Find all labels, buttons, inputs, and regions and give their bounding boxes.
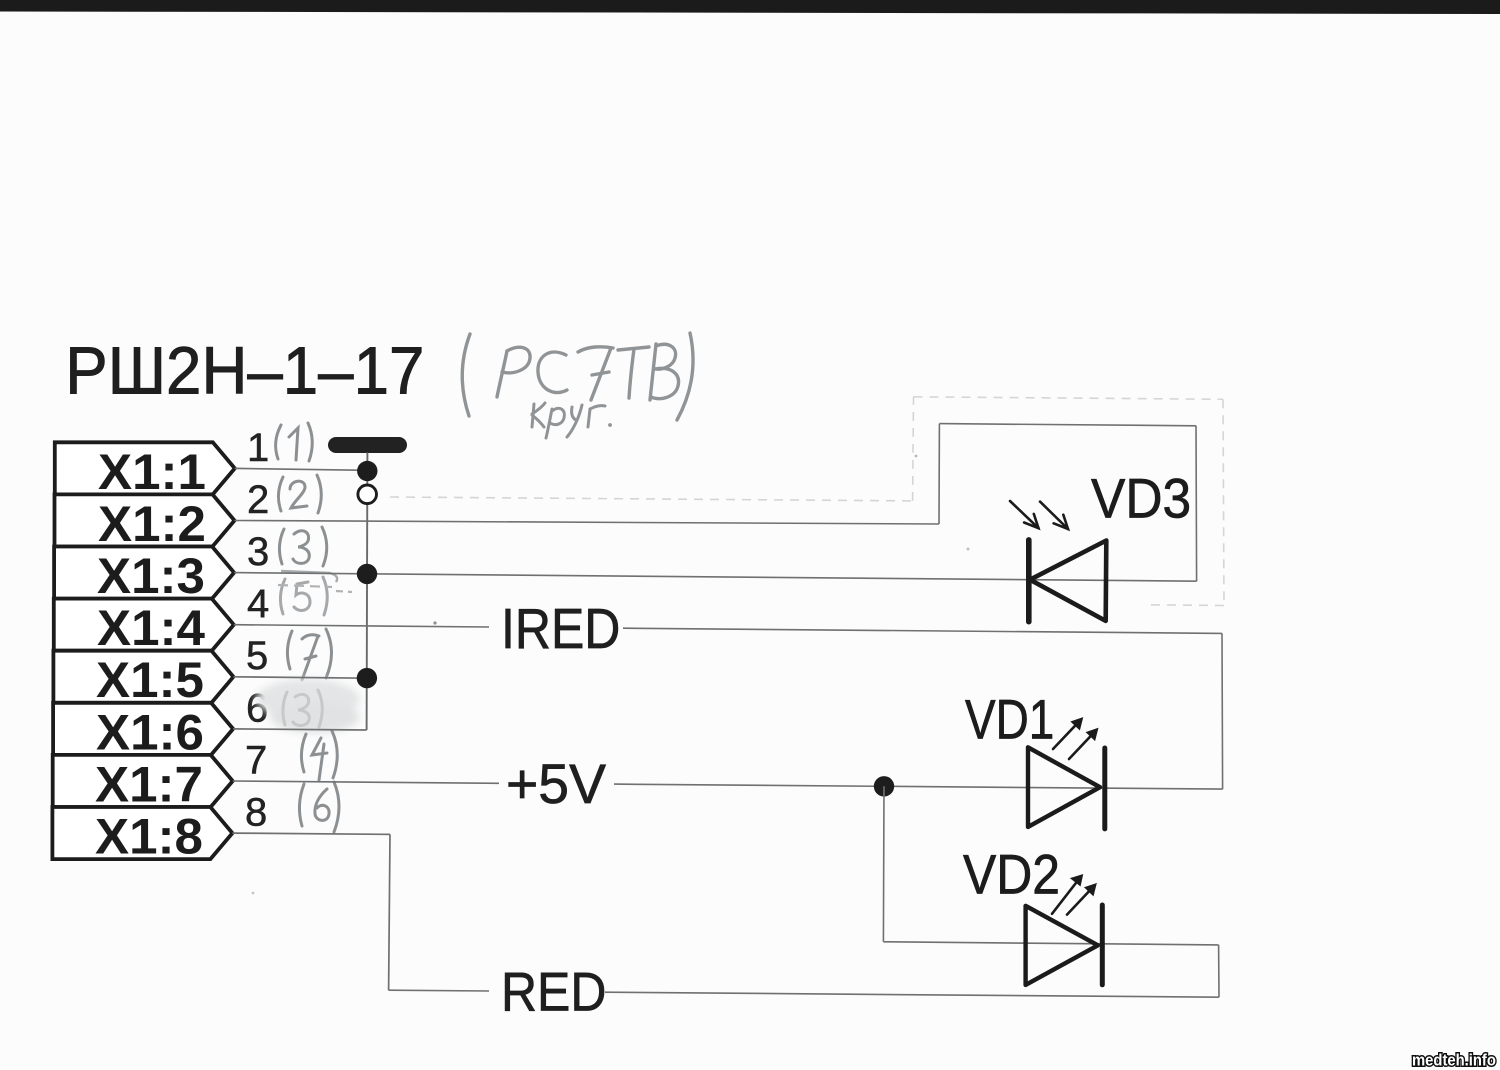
scan speck 3 <box>967 548 970 551</box>
erased dashed wire <box>390 397 1224 606</box>
svg-text:1: 1 <box>247 426 269 470</box>
svg-text:3: 3 <box>247 530 269 574</box>
svg-text:X1:1: X1:1 <box>98 444 206 500</box>
wire pin8 <box>232 833 390 834</box>
scan speck 1 <box>433 621 436 624</box>
svg-text:РШ2Н–1–17: РШ2Н–1–17 <box>65 333 424 408</box>
wire pin6 to bus <box>233 729 367 730</box>
svg-text:VD2: VD2 <box>963 844 1060 906</box>
handwritten dashes near (3) <box>281 571 337 582</box>
handwritten (3) <box>279 527 326 566</box>
handwritten круг. <box>532 403 612 438</box>
shield bar <box>328 437 407 453</box>
photodiode VD3 <box>1010 501 1106 622</box>
junction dot pin5 <box>357 668 377 688</box>
open circle shield <box>358 485 377 504</box>
connector flag X1:1 <box>55 442 235 500</box>
connector flag X1:4 <box>54 599 234 657</box>
svg-text:X1:5: X1:5 <box>96 652 204 708</box>
svg-text:X1:4: X1:4 <box>97 600 205 656</box>
scan speck 2 <box>915 455 918 458</box>
wire +5V left <box>233 781 499 783</box>
wire IRED right <box>623 628 1222 633</box>
wire pin2 <box>235 521 940 525</box>
handwritten dashes near (5) <box>278 585 352 592</box>
scanner top bar <box>0 0 1500 14</box>
junction dot pin3 <box>357 564 377 584</box>
scan speck 4 <box>252 892 255 895</box>
wire pin8 drop <box>389 834 390 990</box>
svg-text:8: 8 <box>245 791 267 835</box>
handwritten (4) <box>301 731 337 780</box>
svg-text:7: 7 <box>245 738 267 782</box>
junction dot +5V <box>874 776 894 796</box>
wire IRED left <box>234 625 489 627</box>
svg-text:X1:2: X1:2 <box>98 496 206 552</box>
svg-text:X1:8: X1:8 <box>95 809 203 865</box>
wire pin2 riser <box>938 424 940 524</box>
svg-text:VD3: VD3 <box>1091 468 1191 530</box>
connector flag X1:7 <box>53 755 233 813</box>
handwritten (РС7ТВ) <box>462 333 693 420</box>
handwritten (5) smudged <box>280 577 327 615</box>
wire +5V drop <box>882 786 885 942</box>
svg-text:5: 5 <box>246 634 268 678</box>
connector flag X1:5 <box>53 651 233 709</box>
wire +5V to VD1 <box>614 784 1223 789</box>
wire VD2 anode row <box>883 942 1218 945</box>
connector flag X1:3 <box>54 547 234 605</box>
LED VD1 <box>1028 718 1105 829</box>
wire pin5 to bus <box>233 677 367 678</box>
erasure smudge pin6 <box>256 679 360 733</box>
wire VD3 right drop <box>1195 426 1198 581</box>
svg-text:RED: RED <box>501 961 606 1023</box>
LED VD2 <box>1026 875 1103 985</box>
svg-text:IRED: IRED <box>501 597 620 661</box>
svg-text:X1:7: X1:7 <box>95 756 203 812</box>
svg-text:X1:6: X1:6 <box>96 704 204 760</box>
handwritten (7) <box>287 629 331 680</box>
bus wire vertical <box>366 453 369 731</box>
svg-text:2: 2 <box>247 478 269 522</box>
svg-text:medteh.info: medteh.info <box>1412 1052 1496 1070</box>
svg-text:X1:3: X1:3 <box>97 548 205 604</box>
svg-text:4: 4 <box>247 582 269 626</box>
wire pin3 to VD3 <box>234 573 1197 582</box>
handwritten (6) <box>299 782 339 832</box>
svg-text:+5V: +5V <box>506 752 606 814</box>
handwritten (2) <box>278 475 321 513</box>
wire pin1 to bus <box>235 468 368 470</box>
connector flag X1:2 <box>55 494 235 552</box>
wire VD3 top <box>939 424 1196 426</box>
wire RED right <box>605 992 1219 997</box>
wire RED left <box>389 989 489 992</box>
connector flag X1:6 <box>53 703 233 761</box>
connector flag X1:8 <box>52 807 232 865</box>
wire IRED drop to VD1 <box>1221 633 1224 789</box>
svg-text:VD1: VD1 <box>965 688 1054 750</box>
junction dot pin1 <box>357 461 377 481</box>
wire VD2 cathode drop <box>1218 945 1220 997</box>
handwritten (1) <box>276 423 313 461</box>
